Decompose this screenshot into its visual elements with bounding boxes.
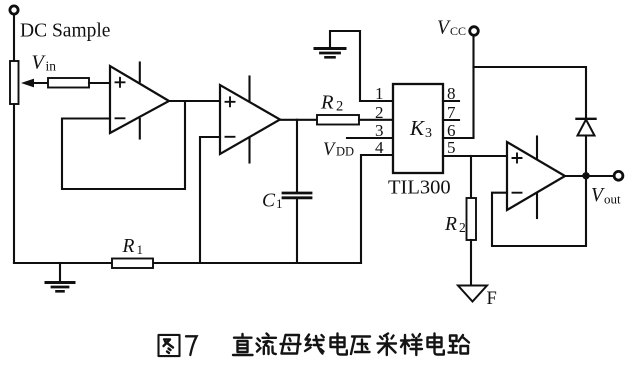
svg-text:7: 7: [447, 103, 456, 122]
resistor R1 body: [112, 259, 153, 269]
wire: U2 minus input to bottom rail: [200, 137, 220, 263]
wire: C1 top connection: [296, 120, 298, 192]
wire: R2 to K3 pin 2: [359, 119, 393, 121]
svg-text:F: F: [487, 289, 497, 309]
caption char yang (sampling): [401, 334, 422, 355]
bottom rail wire: [14, 262, 361, 264]
IC K3 TIL300 body: [393, 84, 443, 173]
svg-text:V: V: [32, 52, 47, 74]
wire: R2 bottom to F ground: [470, 240, 472, 285]
wire: VCC branch to diode: [474, 67, 587, 118]
capacitor C1 plates: [283, 192, 311, 195]
wire: K3 pin 8 stub: [443, 100, 459, 102]
caption char mu (bus): [281, 335, 301, 354]
wire: K3 pin 6 to VCC: [443, 137, 473, 139]
wire: K3 pin 5 to op-amp U3 + input: [443, 155, 507, 157]
svg-text:1: 1: [137, 242, 144, 257]
wire: resistor to op-amp U1 + input: [89, 82, 110, 84]
wire: U3 output to Vout terminal: [565, 175, 614, 177]
wire: K3 pin 1 to top ground: [330, 31, 393, 101]
op-amp U3 power pin bottom: [536, 194, 538, 218]
svg-text:8: 8: [447, 84, 456, 103]
svg-text:K: K: [409, 116, 425, 140]
svg-text:3: 3: [425, 126, 432, 141]
wire: C1 bottom to rail: [296, 199, 298, 263]
svg-text:out: out: [604, 192, 621, 207]
wire: diode to Vout node: [585, 136, 587, 176]
diode D1: [577, 118, 596, 120]
ground (bottom left): [59, 263, 61, 282]
svg-text:1: 1: [276, 196, 283, 211]
resistor R2 body (bottom): [467, 198, 477, 240]
op-amp U2 power pin top: [248, 77, 250, 102]
wire: U2 output to resistor R2: [280, 119, 317, 121]
potentiometer RP body: [10, 61, 19, 104]
caption char dian (electric): [331, 334, 347, 355]
ground (top, pin 1): [315, 47, 345, 50]
op-amp U3 power pin top: [536, 137, 538, 159]
wire: U1 output to U2 + input: [169, 100, 220, 102]
op-amp U3: [507, 142, 565, 210]
caption char lu (circuit): [449, 335, 470, 354]
wire: VCC down to pin 6: [472, 36, 474, 139]
caption char xian (line): [305, 335, 324, 354]
potentiometer wiper arrow: [33, 82, 48, 84]
svg-text:V: V: [437, 18, 451, 39]
wire: U1 feedback (minus input loop): [62, 101, 185, 189]
svg-text:2: 2: [336, 99, 343, 115]
svg-text:CC: CC: [450, 24, 466, 38]
terminal VCC: [470, 27, 479, 36]
svg-text:2: 2: [459, 220, 466, 235]
op-amp U1 power pin top: [139, 63, 141, 82]
resistor R2 body (top): [317, 115, 359, 125]
svg-text:2: 2: [375, 103, 384, 122]
svg-text:V: V: [591, 185, 605, 206]
caption char tu (figure): [159, 335, 180, 356]
svg-text:TIL300: TIL300: [388, 177, 451, 199]
svg-text:R: R: [444, 214, 457, 235]
frame ground F: [458, 286, 487, 302]
svg-text:4: 4: [375, 138, 384, 157]
node: Vout junction: [582, 172, 589, 179]
svg-text:DC Sample: DC Sample: [20, 21, 110, 42]
svg-text:R: R: [320, 92, 334, 114]
svg-text:V: V: [323, 140, 337, 160]
caption char liu (flow): [257, 334, 277, 355]
op-amp U1 power pin bottom: [139, 119, 141, 139]
op-amp U2: [220, 85, 280, 154]
wire: pin5 junction down to R2 (bottom): [470, 156, 472, 198]
svg-text:in: in: [46, 59, 57, 74]
wire: U3 feedback loop: [492, 176, 586, 246]
caption text: 7: [186, 336, 197, 355]
op-amp U2 power pin bottom: [248, 138, 250, 163]
resistor (wiper series) body: [48, 78, 89, 88]
svg-text:5: 5: [447, 138, 456, 157]
op-amp U1: [110, 66, 169, 133]
caption: figure 7 title (hand-drawn CJK strokes): [159, 334, 470, 357]
wire: K3 pin 7 stub: [443, 119, 459, 121]
svg-text:R: R: [122, 236, 135, 257]
wire: K3 pin 4 to bottom rail: [361, 155, 393, 263]
svg-text:DD: DD: [336, 145, 354, 159]
terminal: DC sample input: [10, 6, 18, 14]
wire: K3 pin 3 stub (VDD): [347, 137, 393, 139]
svg-text:1: 1: [375, 84, 384, 103]
caption char zhi (straight): [233, 334, 253, 355]
terminal Vout: [614, 171, 623, 180]
wire: terminal to potentiometer top: [13, 15, 15, 62]
svg-text:C: C: [262, 191, 276, 212]
wire: potentiometer bottom to bottom rail: [13, 104, 15, 263]
caption char cai (sample): [378, 334, 397, 356]
caption char dian2 (electric): [428, 334, 444, 355]
caption char ya (voltage): [351, 337, 370, 355]
